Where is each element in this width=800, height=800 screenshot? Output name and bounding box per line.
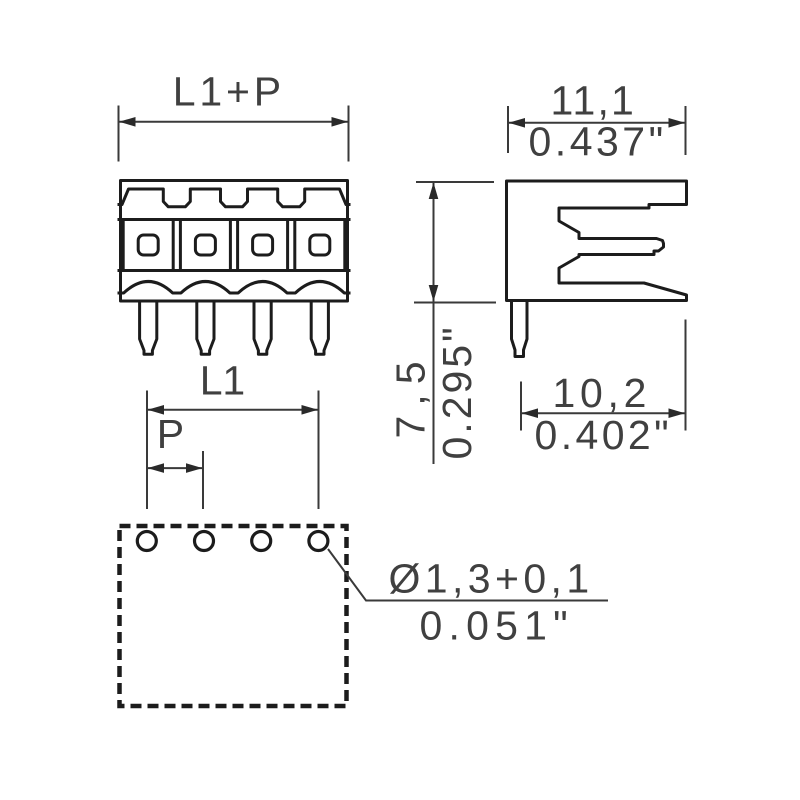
connector front: pin cross-section 1 xyxy=(138,235,158,255)
dim 7,5 dimension line xyxy=(433,182,435,464)
dim 10,2 extension lines xyxy=(520,382,522,431)
connector front: contact row lower line xyxy=(119,269,349,272)
drill hole 3 xyxy=(252,532,271,551)
dim 7,5 bottom extension line xyxy=(414,302,496,304)
connector front: scalloped bottom collar line xyxy=(119,282,349,294)
connector front: contact row upper line xyxy=(119,218,349,221)
dim L1+P extension lines xyxy=(118,106,120,162)
svg-text:11,1: 11,1 xyxy=(551,78,637,124)
svg-text:0.295": 0.295" xyxy=(434,324,480,459)
PCB outline (dashed) xyxy=(120,526,347,706)
svg-text:0.402": 0.402" xyxy=(535,412,673,458)
svg-text:P: P xyxy=(157,411,184,457)
connector front: contact chamber 1 xyxy=(123,220,173,271)
dim 11,1 dimension line xyxy=(508,122,686,124)
connector front: contact chamber 3 xyxy=(238,220,288,271)
connector front: castellated top edge profile xyxy=(119,189,349,207)
drill hole 1 xyxy=(137,532,156,551)
dim L1+P dimension line xyxy=(119,121,349,123)
svg-text:10,2: 10,2 xyxy=(553,370,652,416)
drill hole 2 xyxy=(195,532,214,551)
connector front: housing outline xyxy=(121,181,348,302)
svg-text:0.437": 0.437" xyxy=(529,118,667,164)
svg-text:0.051": 0.051" xyxy=(420,603,574,649)
svg-text:L1+P: L1+P xyxy=(173,69,285,115)
connector front: pin cross-section 3 xyxy=(253,235,273,255)
dim L1 dimension line xyxy=(147,409,319,411)
connector front: solder pin 2 xyxy=(197,302,214,354)
dim 7,5 top extension line xyxy=(416,181,494,183)
dim 10,2 dimension line xyxy=(521,412,686,414)
leader line to hole 4 xyxy=(328,549,608,601)
dim P dimension line xyxy=(147,467,203,469)
connector front: contact chamber 4 xyxy=(295,220,345,271)
connector front: pin cross-section 4 xyxy=(310,235,330,255)
connector front: pin cross-section 2 xyxy=(195,235,215,255)
dim L1 extension lines xyxy=(146,391,148,510)
connector side: housing profile xyxy=(507,181,687,301)
svg-text:L1: L1 xyxy=(200,358,245,404)
drill hole 4 xyxy=(309,532,328,551)
connector side: solder pin xyxy=(512,302,528,357)
dim P extension line xyxy=(202,451,204,509)
connector front: solder pin 4 xyxy=(311,302,328,354)
dim 11,1 extension lines xyxy=(507,106,509,153)
connector front: solder pin 1 xyxy=(140,302,157,354)
connector front: contact chamber 2 xyxy=(180,220,230,271)
connector front: solder pin 3 xyxy=(254,302,271,354)
svg-text:7,5: 7,5 xyxy=(388,352,434,439)
svg-text:Ø1,3+0,1: Ø1,3+0,1 xyxy=(389,556,594,602)
